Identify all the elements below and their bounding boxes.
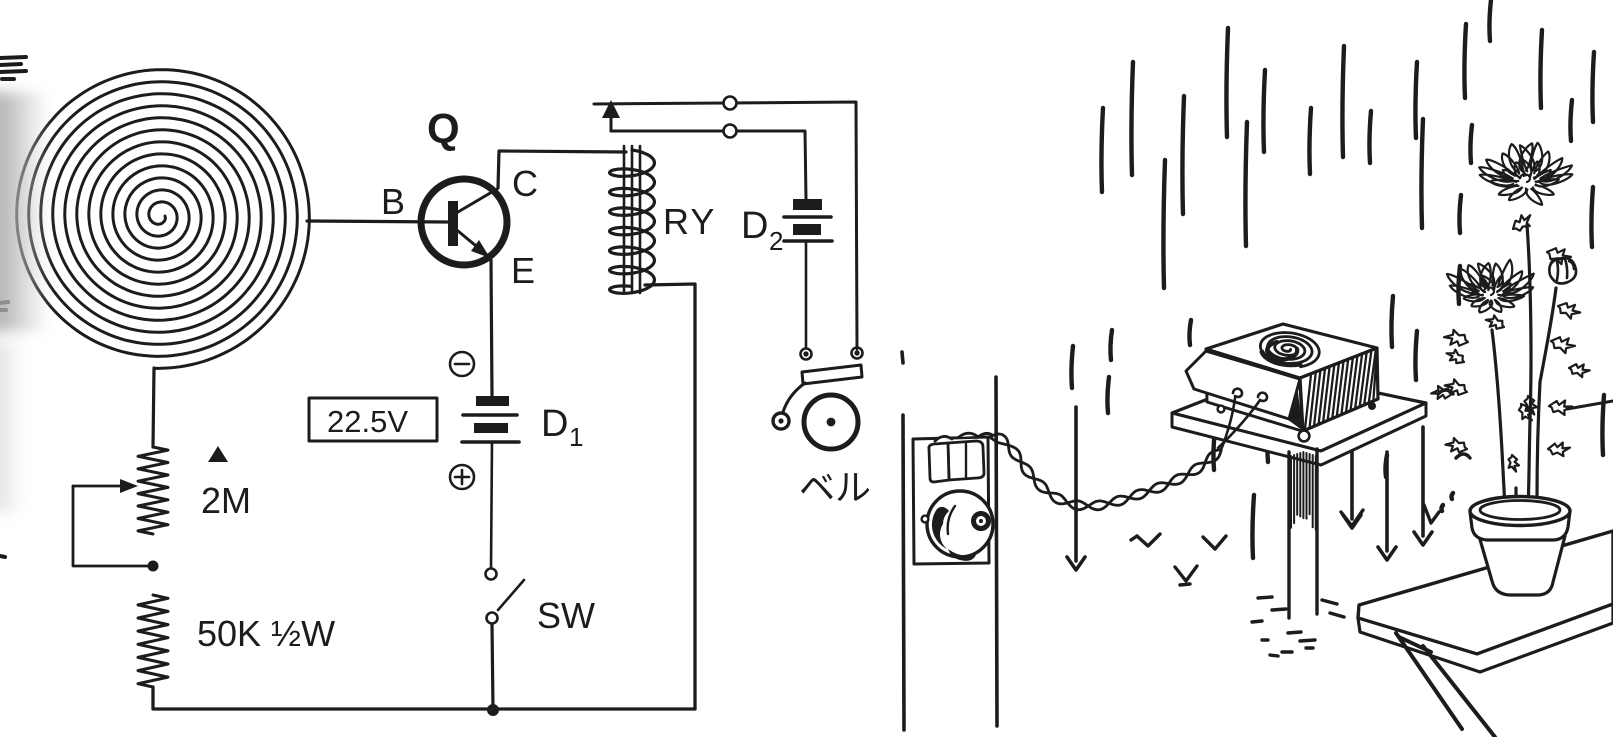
ground scatter	[1252, 597, 1344, 656]
junction dot pot/50K	[148, 561, 159, 572]
svg-text:2M: 2M	[201, 480, 251, 521]
flower pot rim	[1470, 511, 1570, 540]
junction dot bottom	[487, 704, 499, 716]
resistor 50K zigzag	[138, 595, 168, 687]
relay winding	[610, 150, 655, 293]
armature arrow up	[610, 116, 613, 131]
scan smudge over spiral	[0, 92, 50, 332]
flower stems	[1492, 225, 1556, 515]
sensor spiral (moisture detector grid)	[17, 70, 310, 369]
transistor base bar	[448, 201, 458, 246]
relay bottom wire to right rail	[645, 284, 695, 709]
device top spiral	[1260, 333, 1319, 367]
twisted wire strand A	[990, 437, 1221, 510]
potentiometer 2M zigzag	[138, 447, 168, 534]
leaves	[1431, 215, 1590, 471]
device feet	[1218, 406, 1225, 413]
stand board top	[1172, 372, 1426, 451]
wire D2 down to bell terminal	[805, 241, 808, 348]
table thickness	[1358, 604, 1613, 672]
dome shading crescent	[932, 507, 949, 549]
post	[1289, 449, 1317, 618]
switch SW	[486, 569, 525, 624]
transistor collector stroke	[458, 189, 497, 212]
svg-text:D: D	[541, 403, 568, 445]
svg-text:B: B	[381, 181, 405, 222]
house bell mounting plate	[913, 437, 989, 564]
device box front face	[1206, 351, 1302, 431]
bell striker arm	[783, 383, 805, 412]
device box top face	[1206, 324, 1377, 378]
house bell transformer box	[929, 433, 984, 482]
device right face hatched	[1300, 348, 1378, 431]
svg-text:D: D	[741, 205, 768, 247]
twisted wire strand B	[990, 434, 1221, 510]
rain arrows long	[1067, 407, 1432, 570]
relay coil RY core	[624, 146, 640, 293]
bell bracket	[802, 365, 862, 384]
22.5V value box	[309, 398, 437, 441]
table legs	[1396, 633, 1495, 737]
small side knob	[922, 516, 929, 523]
svg-text:50K ½W: 50K ½W	[197, 613, 335, 654]
svg-text:ベル: ベル	[799, 467, 871, 508]
transistor Q1 circle	[421, 179, 507, 265]
svg-text:Q: Q	[427, 105, 460, 152]
battery D2	[793, 199, 822, 235]
flower head 1	[1479, 143, 1572, 205]
label triangle marker	[208, 446, 228, 462]
table top	[1358, 531, 1613, 654]
wire spiral to base B	[307, 221, 447, 222]
device shadow opening	[1284, 382, 1302, 430]
svg-text:22.5V: 22.5V	[327, 404, 408, 439]
minus terminal circle	[450, 352, 474, 376]
contact circle upper	[724, 97, 737, 110]
svg-text:C: C	[512, 163, 538, 204]
wire battery to switch	[491, 442, 492, 568]
bell striker	[773, 413, 789, 429]
dome clapper	[974, 514, 989, 529]
svg-text:1: 1	[569, 422, 583, 452]
potentiometer wiper arrow	[73, 485, 128, 488]
plus terminal circle	[450, 465, 474, 489]
contact line upper	[594, 102, 857, 349]
svg-text:SW: SW	[537, 595, 595, 636]
svg-text:2: 2	[769, 226, 783, 256]
splash marks	[1131, 390, 1470, 585]
battery D1	[474, 396, 509, 433]
wiper bracket wire	[73, 486, 153, 566]
bell terminal right	[852, 348, 863, 359]
stand board thickness	[1172, 403, 1426, 465]
svg-text:E: E	[511, 250, 535, 291]
emitter wire down	[491, 260, 492, 396]
rain streaks	[1071, 0, 1604, 558]
bottom wire	[153, 687, 695, 709]
post shading	[1291, 452, 1316, 530]
scan marks top-left	[0, 57, 26, 557]
background line right of pot	[1567, 401, 1613, 409]
wall vertical lines	[902, 352, 997, 730]
cord from transformer	[978, 433, 992, 437]
terminal hooks	[1233, 389, 1267, 401]
flower head 2	[1447, 260, 1534, 313]
bell gong	[804, 395, 858, 449]
wire spiral bottom down to potentiometer	[153, 368, 154, 447]
collector wire up and right to relay	[498, 151, 626, 188]
bell terminal left	[801, 349, 812, 360]
pot body	[1479, 536, 1565, 595]
flower bud	[1549, 258, 1576, 284]
device lid open	[1186, 351, 1300, 419]
svg-text:RY: RY	[663, 201, 716, 242]
contact circle lower	[724, 125, 737, 138]
contact line lower	[611, 131, 806, 199]
transistor emitter stroke + arrow	[458, 231, 487, 255]
house bell dome	[927, 491, 993, 557]
wire switch to bottom	[492, 624, 493, 709]
wire leads to device hooks	[1218, 398, 1260, 450]
